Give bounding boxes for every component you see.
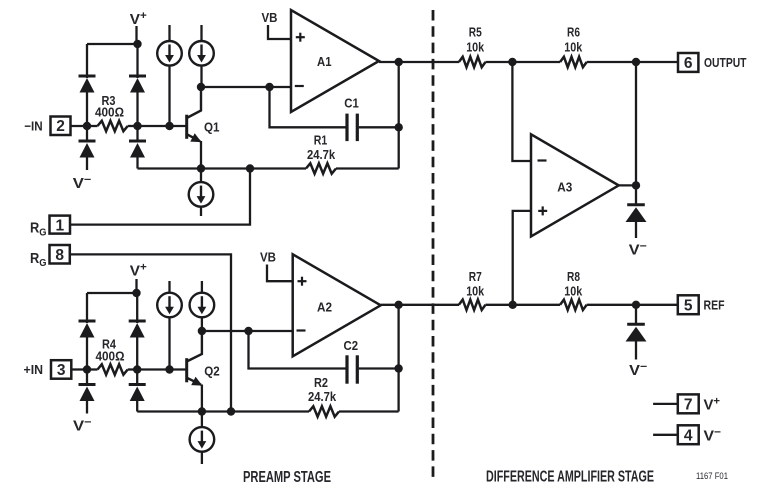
svg-text:5: 5	[684, 297, 693, 314]
dashed stage divider	[432, 10, 435, 478]
op-amp A3	[531, 134, 619, 236]
wire R8 to pin 5	[587, 304, 678, 306]
svg-text:R5: R5	[469, 24, 482, 39]
svg-text:PREAMP STAGE: PREAMP STAGE	[243, 469, 331, 486]
node top V+ junction	[133, 40, 141, 48]
diode D4 (mid lower, cathode up)	[129, 126, 146, 169]
wire Q2 collector to A2 inverting input	[202, 330, 293, 332]
wire left branch upper (bottom section)	[86, 293, 88, 323]
op-amp A1	[291, 10, 379, 112]
diode D10 (REF clamp to V-)	[626, 305, 647, 360]
svg-text:8: 8	[55, 247, 64, 264]
pin 6 box	[678, 53, 698, 72]
svg-text:24.7k: 24.7k	[308, 389, 337, 404]
pin 1 box	[50, 216, 71, 234]
svg-text:400Ω: 400Ω	[96, 348, 125, 363]
capacitor C2	[347, 355, 399, 383]
current source I1	[157, 25, 182, 126]
diode D1 (left upper, cathode up)	[79, 76, 96, 93]
node C2 right	[394, 364, 402, 372]
diode D9 (A3 output clamp to V-)	[626, 205, 647, 238]
node RG1 tap on rail	[246, 164, 254, 172]
wire A2 feedback down	[249, 331, 346, 369]
capacitor C1	[347, 114, 399, 142]
resistor R5 10k	[459, 57, 486, 67]
wire D1 to -IN node	[86, 91, 88, 126]
diode D5 (left upper, cathode up)	[79, 321, 96, 370]
diode D6 (left lower, cathode up)	[79, 370, 96, 414]
node A3 output	[632, 181, 640, 189]
node R4 right / mid branch	[133, 365, 141, 373]
svg-text:REF: REF	[704, 298, 725, 313]
wire base row to Q2	[137, 368, 186, 370]
node Q1 emitter on rail	[197, 164, 205, 172]
diode D3 (mid upper, cathode up)	[129, 76, 146, 126]
wire Q1 collector to A1 inverting input	[201, 86, 291, 88]
node A1 inverting input	[265, 83, 273, 91]
wire V+ bottom stub	[135, 279, 137, 293]
wire emitter rail left part	[138, 167, 307, 169]
diode D2 (left lower, cathode up)	[79, 126, 96, 170]
op-amp A2	[293, 254, 381, 356]
pin 3 box	[51, 360, 87, 379]
wire RG8 run	[70, 254, 231, 411]
svg-text:6: 6	[684, 55, 693, 72]
wire VB to A2 + input	[267, 265, 293, 282]
resistor R7 10k	[459, 300, 486, 310]
node Q2 emitter on rail	[198, 407, 206, 415]
current source I5	[190, 281, 215, 331]
wire output rail down through A3 output	[635, 62, 637, 205]
wire A2 rail R7 to R8	[486, 304, 561, 306]
node R3 right / mid branch	[133, 122, 141, 130]
svg-text:R2: R2	[314, 375, 328, 390]
svg-text:+IN: +IN	[24, 362, 44, 377]
wire top rail to left branch	[87, 43, 138, 45]
wire mid branch upper (bottom)	[136, 293, 138, 323]
svg-text:10k: 10k	[564, 40, 583, 55]
wire A2 output to rail	[381, 304, 459, 306]
wire A3 non-inverting input	[513, 211, 531, 305]
node Q1 collector	[197, 83, 205, 91]
node A2 output	[394, 301, 402, 309]
svg-text:DIFFERENCE AMPLIFIER STAGE: DIFFERENCE AMPLIFIER STAGE	[486, 469, 654, 486]
resistor R2 24.7k	[309, 406, 399, 416]
svg-text:A2: A2	[317, 299, 332, 314]
wire A2 output down to R2 rail	[397, 305, 399, 412]
svg-text:OUTPUT: OUTPUT	[704, 55, 747, 70]
current source I6 (tail bottom)	[190, 412, 215, 465]
node A1 output	[395, 58, 403, 66]
svg-text:10k: 10k	[564, 284, 583, 299]
svg-text:R6: R6	[567, 24, 580, 39]
node bottom V+ junction	[132, 289, 140, 297]
pin 5 box	[678, 295, 699, 314]
wire V+ top stub	[135, 26, 137, 44]
svg-text:C2: C2	[344, 338, 359, 353]
svg-text:10k: 10k	[466, 284, 485, 299]
node RG8 tap on rail	[227, 407, 235, 415]
pin 8 box	[50, 245, 70, 264]
current source I2	[189, 25, 214, 87]
pin 4 box	[653, 425, 699, 444]
node R7/R8 junction	[509, 301, 517, 309]
svg-text:Q2: Q2	[204, 364, 220, 379]
wire A1 output down to R1 rail	[398, 62, 400, 169]
wire base row to Q1	[138, 125, 187, 127]
node current source 1 to base row	[165, 122, 173, 130]
wire VB to A1 + input	[268, 25, 291, 39]
wire left branch upper	[86, 44, 88, 78]
resistor R1 24.7k	[306, 163, 399, 173]
svg-text:VB: VB	[262, 10, 278, 25]
pin 2 box	[51, 117, 88, 136]
wire R5 to R6	[486, 61, 561, 63]
node current source 4 to base row	[165, 365, 173, 373]
current source I4	[157, 281, 182, 370]
node Q2 collector	[198, 327, 206, 335]
svg-text:R1: R1	[314, 132, 328, 147]
svg-text:1: 1	[55, 217, 64, 234]
wire RG1 run	[70, 169, 250, 225]
wire bottom rail to left branch	[87, 292, 137, 294]
svg-text:R8: R8	[567, 269, 580, 284]
svg-text:A3: A3	[557, 180, 572, 195]
node C1 right	[395, 123, 403, 131]
current source I3 (tail)	[189, 169, 214, 217]
wire R6 to pin 6	[587, 61, 678, 63]
svg-text:Q1: Q1	[204, 119, 220, 134]
svg-text:7: 7	[684, 397, 693, 414]
svg-text:−IN: −IN	[24, 118, 42, 133]
svg-text:R7: R7	[469, 269, 482, 284]
svg-text:4: 4	[684, 427, 693, 444]
node +IN	[83, 365, 91, 373]
svg-text:10k: 10k	[466, 40, 485, 55]
resistor R6 10k	[560, 57, 587, 67]
node A2 inverting input	[244, 327, 252, 335]
svg-text:3: 3	[57, 362, 66, 379]
svg-text:C1: C1	[344, 96, 359, 111]
pin 7 box	[653, 394, 699, 413]
wire A3 output	[619, 184, 636, 186]
resistor R3 400ohm	[87, 121, 138, 131]
wire emitter rail bottom left part	[137, 410, 309, 412]
wire mid branch upper	[136, 44, 138, 78]
wire A1 feedback down	[270, 87, 346, 127]
diode D8 (mid lower, cathode up)	[129, 370, 146, 412]
wire A1 output to rail	[379, 61, 459, 63]
svg-text:VB: VB	[260, 249, 276, 264]
svg-text:A1: A1	[317, 54, 332, 69]
node -IN	[83, 122, 91, 130]
node output junction	[632, 58, 640, 66]
wire A3 inverting input	[512, 62, 531, 161]
node R5/R6 junction	[508, 58, 516, 66]
resistor R8 10k	[560, 300, 587, 310]
svg-text:1167 F01: 1167 F01	[696, 471, 728, 481]
svg-text:400Ω: 400Ω	[95, 105, 124, 120]
diode D7 (mid upper, cathode up)	[129, 321, 146, 370]
resistor R4 400ohm	[87, 364, 137, 374]
svg-text:24.7k: 24.7k	[307, 147, 336, 162]
svg-text:2: 2	[56, 118, 65, 135]
transistor Q1	[187, 87, 202, 169]
node REF junction	[632, 301, 640, 309]
transistor Q2	[187, 331, 203, 412]
